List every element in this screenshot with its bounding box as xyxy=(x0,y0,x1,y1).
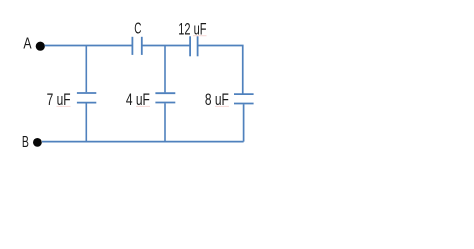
svg-text:A: A xyxy=(23,35,32,52)
wire: top rail from node A to capacitor C left plate xyxy=(45,45,132,47)
capacitor 12 uF plates xyxy=(190,36,198,56)
svg-text:B: B xyxy=(22,134,29,151)
svg-text:C: C xyxy=(134,20,141,37)
spellcheck squiggle under 8 uF label xyxy=(215,105,229,107)
wire: branch from 4 uF bottom plate to bottom rail xyxy=(164,103,166,141)
node A terminal dot xyxy=(36,42,45,51)
spellcheck squiggle under 12 uF label xyxy=(193,35,207,37)
wire: top rail between capacitor C and 12 uF capacitor xyxy=(142,45,190,47)
capacitor C plates xyxy=(132,37,141,55)
spellcheck squiggle under 7 uF label xyxy=(57,105,71,107)
node B terminal dot xyxy=(33,138,42,147)
wire: top rail right segment and right-side drop to 8 uF top plate xyxy=(198,46,244,94)
capacitor 7 uF plates xyxy=(77,93,96,103)
capacitor 8 uF plates xyxy=(234,94,254,103)
capacitor 4 uF plates xyxy=(155,93,175,102)
wire: branch from 7 uF bottom plate to bottom rail xyxy=(85,103,87,141)
spellcheck squiggle under 4 uF label xyxy=(136,105,150,107)
wire: right-side drop from 8 uF bottom plate and bottom rail to node B xyxy=(42,104,244,141)
wire: branch from top rail to 7 uF top plate xyxy=(85,46,87,93)
wire: branch from top rail to 4 uF top plate xyxy=(164,46,166,93)
